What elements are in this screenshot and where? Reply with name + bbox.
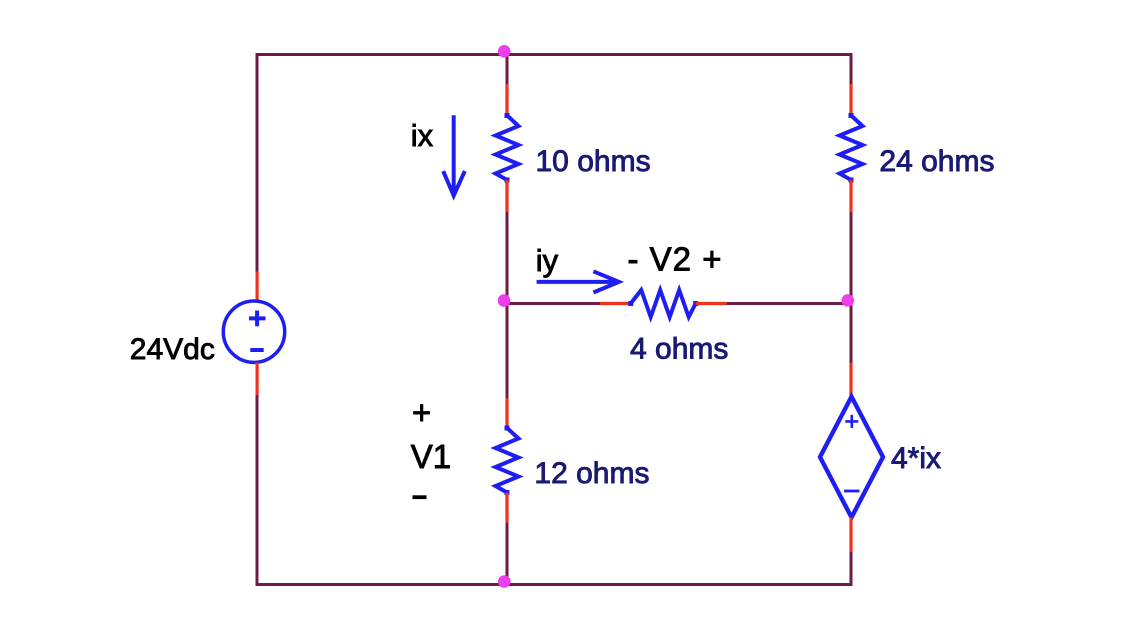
svg-text:iy: iy (536, 243, 559, 278)
svg-text:10 ohms: 10 ohms (536, 145, 651, 178)
pin end nub top R24 (849, 113, 854, 118)
svg-text:24 ohms: 24 ohms (879, 145, 994, 178)
pin bottom of resistor R12 (red) (505, 493, 508, 524)
pin top of resistor R12 (red) (505, 398, 508, 428)
junction node dot bottom (498, 575, 511, 588)
pin end nub top R12 (505, 426, 510, 431)
wire left vertical upper (256, 53, 259, 272)
wire middle vertical node to R12 (506, 302, 509, 399)
junction node dot top (498, 45, 511, 58)
resistor 10 ohms zigzag (496, 115, 519, 179)
wire bottom horizontal (256, 583, 853, 586)
wire right vertical R24 to middle node (850, 212, 853, 305)
wire middle vertical R12 to bottom node (506, 523, 509, 586)
pin right of resistor R4 (red) (696, 302, 727, 305)
svg-text:ix: ix (411, 118, 434, 153)
pin top of resistor R10 (red) (505, 84, 508, 116)
svg-text:+: + (412, 394, 431, 431)
junction node dot middle right (842, 294, 855, 307)
svg-text:4*ix: 4*ix (891, 442, 941, 475)
wire right vertical middle node to dependent source (850, 304, 853, 364)
wire middle vertical from top node to R10 (506, 55, 509, 85)
pin end nub bottom R10 (505, 178, 510, 183)
current arrow iy (right) (537, 271, 619, 292)
svg-text:12 ohms: 12 ohms (534, 457, 649, 490)
voltage source 24Vdc circle (223, 301, 284, 362)
pin end nub right R4 (693, 301, 698, 306)
wire right vertical source to bottom wire (850, 552, 853, 586)
resistor 24 ohms zigzag (840, 115, 863, 179)
wire top horizontal (256, 53, 853, 56)
pin bottom of source (red) (256, 363, 259, 396)
pin end nub bottom R12 (505, 490, 510, 495)
pin left of resistor R4 (red) (600, 302, 631, 305)
resistor 4 ohms zigzag (631, 290, 696, 317)
pin top of source V1 (red) (256, 272, 259, 301)
wire left vertical lower (256, 395, 259, 586)
resistor 12 ohms zigzag (496, 428, 519, 493)
dependent source 4*ix diamond (820, 397, 883, 518)
wire right vertical top corner to R24 (850, 53, 853, 85)
minus sign inside source (250, 348, 263, 352)
wire middle horizontal R4 to right node (727, 302, 851, 305)
wire middle horizontal from node to R4 (507, 302, 601, 305)
svg-text:24Vdc: 24Vdc (130, 333, 215, 366)
current arrow ix (down) (443, 115, 465, 196)
junction node dot middle left (498, 294, 511, 307)
plus sign inside source (249, 311, 266, 327)
pin end nub top R10 (505, 113, 510, 118)
svg-text:4 ohms: 4 ohms (630, 333, 728, 366)
pin top of dependent source (red) (849, 363, 852, 397)
pin end nub left R4 (628, 301, 633, 306)
label minus of V1 (413, 495, 427, 499)
pin top of resistor R24 (red) (849, 84, 852, 116)
pin end nub bottom R24 (849, 178, 854, 183)
pin bottom of resistor R10 (red) (505, 180, 508, 212)
minus sign inside diamond (844, 490, 859, 493)
pin bottom of resistor R24 (red) (849, 180, 852, 212)
pin bottom of dependent source (red) (849, 517, 852, 552)
wire middle vertical R10 to middle node (506, 212, 509, 305)
svg-text:- V2 +: - V2 + (628, 241, 723, 278)
svg-text:V1: V1 (411, 438, 451, 475)
plus sign inside diamond (845, 415, 858, 428)
